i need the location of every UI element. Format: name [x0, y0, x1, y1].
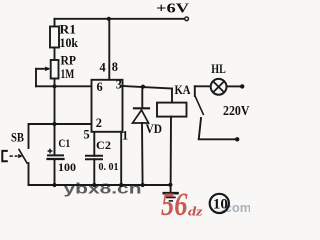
svg-text:dz: dz	[188, 203, 204, 217]
svg-text:6: 6	[97, 80, 103, 94]
svg-text:1: 1	[122, 128, 128, 142]
svg-text:1M: 1M	[61, 67, 75, 81]
svg-text:10k: 10k	[60, 36, 79, 50]
svg-text:RP: RP	[61, 54, 77, 68]
svg-text:R1: R1	[60, 22, 77, 36]
svg-text:C1: C1	[58, 138, 70, 150]
svg-text:56: 56	[161, 187, 188, 217]
svg-text:10: 10	[213, 196, 228, 212]
svg-text:HL: HL	[211, 62, 226, 76]
svg-text:VD: VD	[146, 122, 163, 136]
svg-text:8: 8	[112, 60, 118, 74]
svg-text:ybx8.cn: ybx8.cn	[64, 182, 142, 198]
svg-text:+6V: +6V	[156, 0, 190, 15]
svg-text:220V: 220V	[223, 104, 250, 119]
svg-text:SB: SB	[11, 130, 24, 144]
svg-text:KA: KA	[175, 83, 192, 97]
svg-text:0. 01: 0. 01	[99, 161, 119, 173]
svg-text:5: 5	[84, 127, 90, 141]
svg-text:4: 4	[100, 61, 106, 75]
svg-text:3: 3	[116, 77, 122, 91]
svg-text:2: 2	[96, 116, 102, 130]
svg-text:100: 100	[58, 160, 76, 174]
svg-text:C2: C2	[96, 138, 111, 152]
